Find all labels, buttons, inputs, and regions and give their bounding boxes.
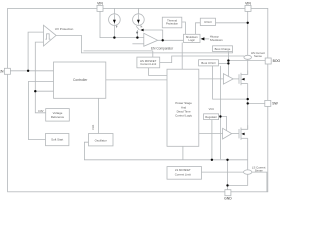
wire soft start to Controller <box>28 82 53 140</box>
node EN comp output <box>162 39 164 41</box>
box HS MOSFET Current Limit <box>137 57 160 68</box>
node BST/BootUVLO <box>227 62 229 64</box>
wire SW rail HS source to LS drain <box>247 84 249 130</box>
box Boot Charge <box>213 46 233 52</box>
svg-text:EN: EN <box>0 70 4 74</box>
current source Ip circle <box>109 14 121 26</box>
wire Controller to power stage <box>106 79 167 81</box>
svg-text:Shutdown: Shutdown <box>210 38 223 42</box>
node GND rail <box>226 159 228 161</box>
node SW pin <box>247 102 249 104</box>
wire SW sense to Boot UVLO <box>213 66 248 99</box>
wire power stage to LS driver input <box>199 133 223 135</box>
wire LS current limit box to sense ellipse <box>202 171 244 173</box>
wire Controller to oscillator <box>98 98 100 133</box>
LS gate driver <box>223 128 232 139</box>
wire EN comparator bottom input stub <box>132 43 143 45</box>
svg-text:Current Limit: Current Limit <box>175 172 191 176</box>
svg-text:Oscillator: Oscillator <box>95 138 107 142</box>
wire 0.8V branch to Controller <box>35 90 53 92</box>
wire EN comparator output branch up to switch control <box>141 30 163 40</box>
svg-text:VCC: VCC <box>209 107 215 111</box>
wire power stage to HS driver input <box>199 78 224 80</box>
svg-text:EN Comparator: EN Comparator <box>151 46 174 50</box>
node 0.8V/controller <box>34 90 36 92</box>
node regulator ground <box>211 159 213 161</box>
hiccup shutdown arrowhead <box>201 37 205 40</box>
wire EN comparator output to Shutdown Logic <box>158 39 184 41</box>
wire VIN1 pin down to EN current-source rail <box>100 11 144 37</box>
transistor HS MOSFET <box>233 71 248 86</box>
current source Ih circle <box>133 14 145 26</box>
wire switch to rail <box>136 30 138 38</box>
box Shutdown Logic <box>184 34 201 42</box>
box Boot UVLO <box>199 60 219 66</box>
wire HS box bottom to power stage <box>149 68 168 76</box>
wire EN pin to Controller <box>10 70 53 72</box>
wire LS sense right tap to frame <box>252 172 267 192</box>
box Regulator <box>204 114 219 120</box>
wire regulator ground <box>211 120 213 160</box>
HS MOSFET body arrow <box>241 78 244 81</box>
wire SW to SW pin <box>248 102 265 104</box>
wire current source Ip stub from top rail <box>113 8 115 37</box>
svg-text:Reference: Reference <box>51 115 65 119</box>
wire power stage bottom stub <box>182 146 184 160</box>
LS current sense ellipse <box>244 170 252 174</box>
op-amp UV Protection comparator <box>44 25 57 46</box>
current direction arrow below switch <box>136 32 138 34</box>
pin VIN right <box>245 5 251 11</box>
switch control arrowhead <box>140 29 143 32</box>
svg-text:Current Limit: Current Limit <box>140 62 156 66</box>
transistor LS MOSFET <box>232 125 248 140</box>
switch blade <box>136 26 139 30</box>
box Controller <box>54 62 106 98</box>
box LS MOSFET Current Limit <box>167 167 202 180</box>
svg-text:Regulator: Regulator <box>205 115 217 119</box>
wire Boot Charge down BST rail to HS driver <box>227 52 229 77</box>
pin GND <box>225 190 231 196</box>
box Thermal Protection <box>162 17 182 28</box>
pin SW <box>265 100 271 106</box>
wire hiccup shutdown input <box>204 38 209 40</box>
box Power Stage And Dead Time Control Logic <box>167 69 199 146</box>
svg-text:VIN: VIN <box>245 1 251 5</box>
wire LS source down to LS current sense <box>247 138 249 170</box>
pin EN <box>4 68 10 74</box>
wire ground bus <box>84 142 247 160</box>
svg-text:BOOT: BOOT <box>273 59 280 63</box>
HS current sense ellipse <box>244 55 252 59</box>
wire EN branch up to UV comparator top input <box>28 32 43 71</box>
box Oscillator <box>89 134 114 146</box>
svg-text:Boot UVLO: Boot UVLO <box>201 61 216 65</box>
wire UV protection output to Boot Charge <box>56 35 232 53</box>
wire VCC rail from Boot UVLO right edge down to ground line <box>219 66 221 159</box>
svg-text:Control Logic: Control Logic <box>175 114 193 118</box>
node VIN2/UVLO <box>247 22 249 24</box>
node EN/UV <box>27 70 29 72</box>
dot regulator VCC <box>219 115 221 117</box>
wire HS current limit to sense ellipse <box>160 56 244 63</box>
wire BST to BOOT pin <box>228 60 265 62</box>
wire HS current limit top stub <box>84 50 153 52</box>
svg-text:UV Protection: UV Protection <box>55 27 74 31</box>
wire UVLO to Shutdown Logic <box>196 23 201 35</box>
wire VIN2 pin down through HS current sense to HS drain <box>247 11 249 55</box>
svg-text:Soft Start: Soft Start <box>51 138 63 142</box>
pin BOOT <box>265 58 271 64</box>
HS gate driver <box>223 74 233 84</box>
node Ih rail <box>136 36 138 38</box>
wire LS sense to ground junction <box>228 174 248 185</box>
wire HS sense to HS MOSFET drain <box>247 59 249 74</box>
wire GND pin up <box>227 160 229 190</box>
wire VCC to LS driver supply <box>220 117 226 131</box>
wire BST to Boot UVLO <box>218 62 228 64</box>
box UVLO <box>200 18 215 25</box>
wire UVLO box to VIN2 rail <box>216 22 248 24</box>
node LS sense return <box>226 184 228 186</box>
node SW sense <box>247 98 249 100</box>
svg-text:VIN: VIN <box>97 1 103 5</box>
svg-text:Sense: Sense <box>255 169 263 173</box>
wire Thermal Protection to Shutdown Logic <box>182 22 186 34</box>
svg-text:0.8V: 0.8V <box>38 109 44 113</box>
node BST/BOOT <box>227 59 229 61</box>
box Voltage Reference <box>46 109 70 122</box>
op-amp EN comparator <box>144 33 158 46</box>
box Soft Start <box>46 134 69 146</box>
svg-text:CLK: CLK <box>91 124 95 129</box>
wire current source Ih stub from top rail <box>137 8 139 14</box>
pin VIN left <box>97 5 103 11</box>
IC boundary frame <box>8 8 268 191</box>
svg-text:Logic: Logic <box>188 38 195 42</box>
svg-text:GND: GND <box>224 197 232 201</box>
svg-text:UVLO: UVLO <box>204 20 212 24</box>
LS MOSFET body arrow <box>241 133 244 136</box>
wire shutdown logic bottom stub <box>181 43 183 70</box>
svg-text:Boot Charge: Boot Charge <box>215 47 231 51</box>
current direction arrow below Ip <box>116 26 117 28</box>
wire 0.8V reference to UV comparator bottom input and Controller <box>35 42 45 113</box>
svg-text:Sense: Sense <box>254 54 262 58</box>
node Ip rail <box>113 36 115 38</box>
svg-text:SW: SW <box>272 102 278 106</box>
svg-text:Protection: Protection <box>166 22 179 26</box>
svg-text:Controller: Controller <box>73 78 88 82</box>
